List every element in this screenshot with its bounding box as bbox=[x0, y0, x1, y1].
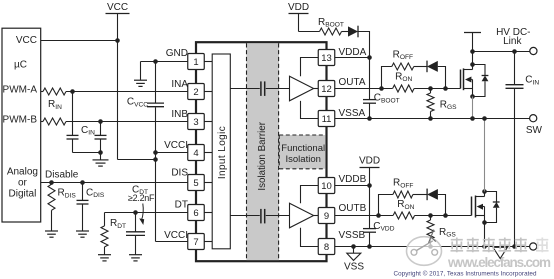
diode DOFF (A) bbox=[427, 61, 438, 73]
pin 5 bbox=[188, 175, 205, 191]
capacitor CDIS bbox=[77, 183, 105, 231]
wire VCCI pin 7 bbox=[156, 241, 188, 243]
junction gate-B node bbox=[443, 213, 448, 218]
svg-text:www.elecfans.com: www.elecfans.com bbox=[447, 255, 551, 270]
svg-text:VDDA: VDDA bbox=[339, 47, 367, 58]
wire VCC vertical feed to VCCI bbox=[118, 41, 156, 160]
svg-text:≥2.2nF: ≥2.2nF bbox=[128, 193, 155, 203]
junction GND/CVCC bbox=[153, 59, 158, 64]
pin labels left bbox=[164, 48, 188, 241]
wire diode B down to gate node bbox=[438, 195, 446, 216]
wire driver A to VSSA bbox=[301, 101, 319, 119]
wire driver B output bbox=[314, 215, 319, 217]
body diode Q1 bbox=[473, 65, 489, 97]
pin 11 bbox=[318, 111, 335, 127]
wire Q2 drain to SW rail bbox=[484, 119, 486, 192]
junction VSS symbol node bbox=[351, 244, 356, 249]
resistor ROFF (A) bbox=[392, 49, 414, 70]
wire RON-A to gate bbox=[414, 88, 460, 90]
pin labels right bbox=[339, 47, 367, 241]
junction gate-A node bbox=[443, 86, 448, 91]
input logic block bbox=[212, 54, 230, 249]
junction Q1 drain on HV rail bbox=[470, 49, 475, 54]
junction Q2 source bbox=[482, 220, 487, 225]
wire diode to VDDA node bbox=[358, 32, 370, 58]
svg-text:Isolation Barrier: Isolation Barrier bbox=[257, 121, 268, 190]
svg-text:DT: DT bbox=[175, 199, 188, 210]
wires left pins to input logic bbox=[204, 62, 212, 242]
isolation capacitor channel B bbox=[261, 209, 265, 224]
junction VDDB node bbox=[367, 183, 372, 188]
svg-text:Copyright © 2017, Texas Instru: Copyright © 2017, Texas Instruments Inco… bbox=[394, 270, 537, 278]
label CDT >=2.2nF with arrow bbox=[128, 184, 155, 225]
svg-text:2: 2 bbox=[193, 87, 198, 98]
junction CIN top bbox=[512, 49, 517, 54]
svg-text:SW: SW bbox=[526, 125, 543, 136]
VSS supply symbol bbox=[344, 247, 364, 273]
junction Q2 source on rail bbox=[482, 244, 487, 249]
VDD supply symbol (channel A) bbox=[288, 2, 309, 32]
svg-text:or: or bbox=[18, 178, 28, 189]
gate driver IC outline bbox=[196, 42, 327, 261]
pin 10 bbox=[318, 178, 335, 194]
svg-text:Isolation: Isolation bbox=[286, 154, 321, 165]
wire DT pin 6 bbox=[105, 212, 188, 214]
pin 3 bbox=[188, 114, 205, 130]
svg-text:VSSB: VSSB bbox=[339, 230, 366, 241]
resistor RGS (A) bbox=[427, 89, 457, 119]
svg-text:Functional: Functional bbox=[281, 143, 325, 154]
capacitor CIN (input filter B) bbox=[81, 122, 107, 153]
body diode Q2 bbox=[485, 192, 500, 223]
resistor RBOOT bbox=[318, 17, 344, 35]
wire VDDA to driver A bbox=[301, 58, 319, 77]
svg-text:Analog: Analog bbox=[7, 167, 38, 178]
svg-text:INA: INA bbox=[171, 79, 188, 90]
transistor Q2 (low-side MOSFET) bbox=[472, 192, 485, 223]
capacitor CIN (input filter A) bbox=[67, 92, 101, 153]
svg-text:GND: GND bbox=[166, 48, 188, 59]
resistor RON (B) bbox=[393, 199, 415, 219]
svg-text:1: 1 bbox=[193, 57, 198, 68]
wire VDDB to driver B bbox=[301, 186, 319, 204]
label SW bbox=[526, 125, 543, 136]
ground (RDIS) bbox=[45, 231, 58, 237]
pin 13 bbox=[318, 50, 335, 66]
wire INA bbox=[66, 91, 188, 93]
wire Q1 source to SW rail bbox=[472, 97, 474, 119]
junction CVDD bottom bbox=[367, 244, 372, 249]
watermark url bbox=[447, 255, 551, 270]
svg-text:VCCI: VCCI bbox=[164, 140, 188, 151]
junction RGS-A bottom bbox=[428, 116, 433, 121]
wire channel A to barrier bbox=[230, 88, 259, 90]
HV DC-Link stub bar bbox=[464, 33, 481, 52]
ground (input filter) bbox=[93, 153, 109, 167]
driver buffer A bbox=[290, 76, 314, 101]
ground (CDT) bbox=[129, 255, 142, 261]
junction CIN bottom bbox=[512, 244, 517, 249]
wire VDDB pin 10 bbox=[335, 185, 370, 187]
capacitor CIN (DC link) bbox=[506, 52, 540, 247]
svg-text:VCC: VCC bbox=[107, 2, 128, 13]
wire ROFF-B to diode bbox=[413, 194, 427, 196]
pin 12 bbox=[318, 81, 335, 97]
microcontroller block uC bbox=[2, 28, 41, 222]
wire RBOOT to diode bbox=[342, 31, 349, 33]
ground (GND pin) bbox=[134, 80, 147, 86]
junction CIN ground node bbox=[98, 150, 103, 155]
label HV DC-Link bbox=[496, 27, 530, 47]
wire PWM-A segment bbox=[41, 91, 43, 93]
junction ROFF-B branch bbox=[376, 213, 381, 218]
svg-text:4: 4 bbox=[193, 148, 198, 159]
svg-text:3: 3 bbox=[193, 117, 198, 128]
resistor RGS (B) bbox=[427, 216, 456, 247]
svg-text:10: 10 bbox=[321, 181, 332, 192]
diode DOFF (B) bbox=[427, 189, 438, 201]
junction Q2 drain bbox=[482, 189, 487, 194]
junction VCC feed node bbox=[153, 157, 158, 162]
resistor RDIS bbox=[48, 183, 76, 231]
svg-text:µC: µC bbox=[14, 60, 27, 71]
svg-text:11: 11 bbox=[322, 114, 332, 125]
junction RDIS node bbox=[49, 180, 54, 185]
resistor RDT bbox=[101, 213, 126, 255]
wire channel B to barrier bbox=[230, 215, 259, 217]
wire Q1 drain to HV rail bbox=[472, 52, 474, 65]
junction CDIS node bbox=[80, 180, 85, 185]
wire VCC from uC to VCC rail bbox=[41, 40, 118, 42]
wire VDDA pin 13 bbox=[335, 57, 370, 59]
resistor RIN (PWM-A) bbox=[43, 88, 66, 111]
capacitor CVCC bbox=[127, 62, 164, 242]
wire RON-B to gate bbox=[415, 215, 472, 217]
junction PWM-A filter node bbox=[70, 89, 75, 94]
svg-text:Link: Link bbox=[503, 36, 522, 47]
watermark chinese text bbox=[451, 238, 549, 253]
functional isolation shaded region bbox=[279, 135, 325, 169]
pin 4 bbox=[188, 145, 205, 161]
svg-text:VDD: VDD bbox=[359, 156, 380, 167]
ground (CDIS) bbox=[76, 231, 89, 237]
junction RGS-B node bbox=[428, 213, 433, 218]
wire INB bbox=[66, 121, 188, 123]
wire driver B to VSSB bbox=[301, 228, 319, 247]
junction Q1 source bbox=[470, 94, 475, 99]
VCC supply symbol bbox=[106, 2, 130, 41]
isolation capacitor channel A bbox=[261, 81, 265, 96]
resistor RON (A) bbox=[393, 71, 414, 92]
wire ROFF-B branch up bbox=[379, 195, 393, 216]
diode DBOOT bbox=[348, 26, 358, 38]
wire VDD to RBOOT bbox=[299, 31, 320, 33]
svg-text:7: 7 bbox=[193, 237, 198, 248]
wire driver A output bbox=[314, 88, 319, 90]
svg-text:OUTB: OUTB bbox=[339, 203, 367, 214]
wire GND pin to ground bbox=[141, 62, 188, 80]
terminal SW bbox=[530, 115, 537, 122]
svg-text:Digital: Digital bbox=[9, 188, 37, 199]
wire PWM-B segment bbox=[41, 121, 43, 123]
pin 6 bbox=[188, 205, 205, 221]
junction RGS-A node bbox=[428, 86, 433, 91]
resistor RIN (PWM-B) bbox=[43, 118, 66, 125]
capacitor CVDD bbox=[363, 186, 395, 247]
junction VDDA node bbox=[367, 55, 372, 60]
wire Disable / DIS bbox=[41, 170, 188, 183]
wire OUTA pin 12 bbox=[335, 88, 393, 90]
junction RGS-B bottom bbox=[428, 244, 433, 249]
wire diode A down to gate node bbox=[438, 67, 446, 89]
pin 2 bbox=[188, 84, 205, 100]
svg-text:VSS: VSS bbox=[344, 262, 364, 273]
resistor ROFF (B) bbox=[393, 178, 414, 199]
svg-text:8: 8 bbox=[324, 242, 329, 253]
driver buffer B bbox=[290, 203, 314, 228]
junction VCC node bbox=[115, 38, 120, 43]
pin 7 bbox=[188, 234, 205, 250]
wire VSSB / ground rail bbox=[335, 246, 530, 248]
svg-text:PWM-B: PWM-B bbox=[3, 115, 38, 126]
wire VSSA / SW rail bbox=[335, 118, 530, 120]
transistor Q1 (high-side MOSFET) bbox=[461, 65, 473, 97]
pin 1 bbox=[188, 54, 205, 70]
junction PWM-B filter node bbox=[98, 119, 103, 124]
junction Q1 source on SW bbox=[470, 116, 475, 121]
watermark logo bbox=[407, 230, 442, 266]
svg-text:VSSA: VSSA bbox=[339, 108, 366, 119]
pin 9 bbox=[318, 208, 335, 224]
svg-text:OUTA: OUTA bbox=[339, 77, 366, 88]
VDD supply symbol (channel B) bbox=[359, 156, 380, 186]
wire ROFF-A branch up bbox=[382, 67, 392, 89]
copyright line bbox=[394, 270, 537, 278]
pin 8 bbox=[318, 239, 335, 255]
svg-text:13: 13 bbox=[321, 53, 332, 64]
capacitor CDT bbox=[126, 213, 145, 255]
junction CBOOT bottom bbox=[367, 116, 372, 121]
wire Q2 source to ground rail bbox=[484, 223, 486, 247]
isolation barrier shaded region bbox=[247, 43, 279, 260]
wire channel B to driver bbox=[266, 215, 290, 217]
svg-text:Disable: Disable bbox=[45, 170, 79, 181]
svg-text:VDDB: VDDB bbox=[339, 174, 367, 185]
svg-text:VCC: VCC bbox=[16, 35, 37, 46]
wire VCCI pin 4 bbox=[156, 152, 188, 154]
junction CDT node bbox=[133, 210, 138, 215]
svg-text:INB: INB bbox=[171, 109, 188, 120]
svg-text:DIS: DIS bbox=[171, 168, 188, 179]
power ground triangle bbox=[493, 247, 507, 258]
svg-text:VCCI: VCCI bbox=[164, 230, 188, 241]
svg-text:VDD: VDD bbox=[288, 2, 309, 13]
svg-text:5: 5 bbox=[193, 178, 198, 189]
wire HV DC-Link rail bbox=[473, 51, 530, 53]
svg-text:PWM-A: PWM-A bbox=[3, 85, 38, 96]
capacitor CBOOT bbox=[363, 58, 400, 119]
junction ROFF-A branch bbox=[379, 86, 384, 91]
ground (RDT) bbox=[98, 255, 111, 261]
svg-text:9: 9 bbox=[324, 211, 329, 222]
wire ROFF-A to diode bbox=[414, 66, 427, 68]
junction Q1 drain bbox=[470, 62, 475, 67]
terminal ground rail bbox=[530, 243, 537, 250]
junction Q2 drain on SW bbox=[482, 116, 487, 121]
terminal HV DC-Link bbox=[530, 47, 537, 54]
svg-text:12: 12 bbox=[321, 84, 332, 95]
svg-text:6: 6 bbox=[193, 208, 198, 219]
wire OUTB pin 9 bbox=[335, 215, 393, 217]
wire channel A to driver bbox=[266, 88, 290, 90]
svg-text:Input Logic: Input Logic bbox=[217, 126, 228, 179]
junction VCCI pin4 node bbox=[153, 150, 158, 155]
